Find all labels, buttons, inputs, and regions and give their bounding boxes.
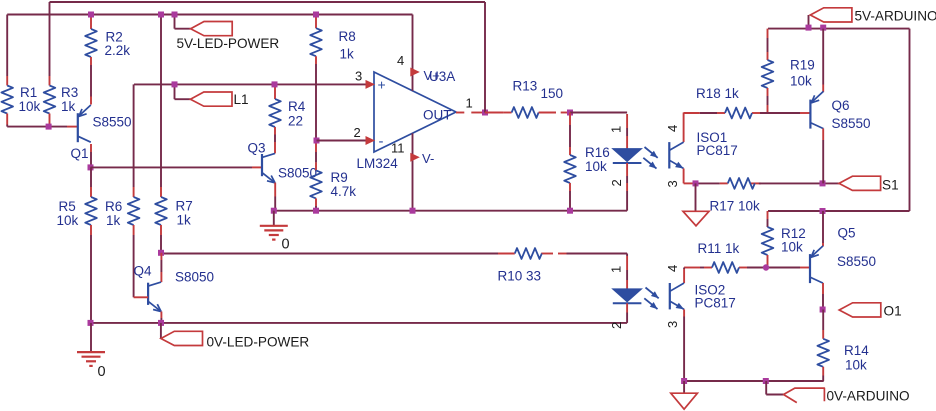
power flag 0V-LED-POWER bbox=[160, 323, 162, 339]
wire R3 top drop bbox=[49, 2, 51, 76]
wire ISO2 pin4 corner bbox=[683, 268, 685, 270]
svg-text:2: 2 bbox=[609, 179, 624, 186]
svg-text:Q6: Q6 bbox=[832, 98, 850, 113]
transistor Q1 S8550 bbox=[90, 97, 92, 105]
wire Q1 collector to Q3 base bbox=[91, 166, 253, 168]
node R8 top bbox=[313, 12, 319, 18]
wire 0V-LED-POWER bus bbox=[91, 322, 628, 324]
wire Q4 base bbox=[134, 296, 149, 298]
svg-text:R17 10k: R17 10k bbox=[710, 199, 761, 214]
svg-text:+: + bbox=[378, 77, 386, 93]
wire R1 top drop bbox=[6, 15, 8, 77]
node R3-base junction bbox=[46, 124, 52, 130]
pin 4 arrow bbox=[410, 68, 420, 77]
svg-text:0V-LED-POWER: 0V-LED-POWER bbox=[207, 334, 310, 349]
svg-text:R14: R14 bbox=[844, 343, 869, 358]
svg-text:10k: 10k bbox=[57, 213, 79, 228]
svg-text:0: 0 bbox=[282, 237, 290, 253]
svg-text:11: 11 bbox=[391, 141, 405, 156]
power flag 5V-ARDUINO bbox=[808, 15, 810, 29]
resistor R18 1k bbox=[725, 108, 752, 119]
ground 0 mid bbox=[260, 225, 288, 227]
wire ISO1 emitter to S1 bbox=[684, 182, 696, 184]
pin 3 arrow bbox=[366, 80, 376, 89]
svg-text:1: 1 bbox=[609, 126, 624, 133]
ISO2 light arrows bbox=[646, 288, 659, 299]
resistor R14 bbox=[822, 310, 824, 331]
node 5V-ARDUINO stub bbox=[806, 25, 812, 31]
svg-text:R6: R6 bbox=[105, 199, 122, 214]
svg-text:R18 1k: R18 1k bbox=[696, 86, 739, 101]
node R4 top bbox=[272, 81, 278, 87]
node R12 bottom junction bbox=[763, 264, 769, 270]
svg-text:4.7k: 4.7k bbox=[331, 184, 357, 199]
resistor R3 bbox=[49, 76, 51, 86]
svg-text:1k: 1k bbox=[340, 47, 355, 62]
svg-text:S8550: S8550 bbox=[832, 116, 871, 131]
ISO2 LED pins bbox=[626, 256, 628, 270]
node R16 top bbox=[567, 110, 573, 116]
svg-text:10k: 10k bbox=[845, 358, 867, 373]
svg-text:R10 33: R10 33 bbox=[498, 269, 542, 284]
svg-text:R16: R16 bbox=[585, 145, 610, 160]
flag S1 bbox=[839, 176, 881, 190]
ISO2 LED bbox=[613, 289, 642, 302]
svg-text:1: 1 bbox=[466, 96, 473, 111]
transistor Q4 S8050 bbox=[160, 253, 162, 260]
svg-text:Q1: Q1 bbox=[71, 146, 89, 161]
node R2 top bbox=[88, 12, 94, 18]
svg-text:S8550: S8550 bbox=[837, 254, 876, 269]
node Q3 emitter ground junction bbox=[271, 208, 277, 214]
wire ISO2 ground stem bbox=[683, 381, 685, 393]
svg-text:R4: R4 bbox=[288, 99, 306, 114]
wire R11/Q5 base net bbox=[684, 267, 700, 269]
transistor Q3 S8050 bbox=[261, 154, 263, 176]
node 5V flag stub bbox=[172, 12, 178, 18]
pin 2 arrow bbox=[366, 136, 376, 145]
resistor R17 10k bbox=[728, 178, 755, 189]
svg-text:R9: R9 bbox=[331, 170, 348, 185]
wire 5V-LED-POWER rail bbox=[7, 14, 412, 16]
svg-text:R3: R3 bbox=[61, 85, 78, 100]
wire 5V-ARDUINO rail bbox=[768, 28, 910, 30]
resistor R4 bbox=[274, 84, 276, 99]
op-amp V+ pin 4 wire bbox=[412, 15, 414, 91]
svg-text:1k: 1k bbox=[177, 213, 192, 228]
svg-text:10k: 10k bbox=[781, 240, 803, 255]
svg-text:Q5: Q5 bbox=[838, 226, 856, 241]
ground ISO2 bbox=[671, 393, 698, 409]
wire Q1 base net bbox=[7, 126, 67, 128]
svg-text:R1: R1 bbox=[20, 85, 37, 100]
svg-text:0V-ARDUINO: 0V-ARDUINO bbox=[827, 389, 910, 404]
op-amp U3A LM324 bbox=[374, 72, 456, 152]
svg-text:3: 3 bbox=[665, 321, 680, 328]
svg-text:3: 3 bbox=[355, 69, 362, 84]
svg-text:4: 4 bbox=[665, 265, 680, 272]
node V- bottom bbox=[410, 208, 416, 214]
wire R7/Q4 collector to R10 net bbox=[161, 253, 498, 255]
svg-text:5V-LED-POWER: 5V-LED-POWER bbox=[177, 36, 280, 51]
svg-text:LM324: LM324 bbox=[357, 156, 399, 171]
ISO2 phototransistor bbox=[683, 269, 685, 283]
svg-text:10k: 10k bbox=[19, 99, 41, 114]
svg-text:R7: R7 bbox=[176, 199, 193, 214]
wire ground stub ISO1 bbox=[695, 183, 697, 211]
svg-text:S8050: S8050 bbox=[175, 270, 214, 285]
svg-text:L1: L1 bbox=[234, 92, 249, 107]
transistor Q5 S8550 bbox=[822, 211, 824, 243]
svg-text:2: 2 bbox=[609, 322, 624, 329]
node Q5 emitter rail junction bbox=[820, 208, 826, 214]
svg-text:2: 2 bbox=[354, 125, 361, 140]
ISO1 LED bbox=[613, 149, 642, 162]
svg-text:V-: V- bbox=[422, 151, 434, 166]
svg-text:Q3: Q3 bbox=[248, 141, 266, 156]
node R7 rail top bbox=[158, 12, 164, 18]
resistor R10 33 bbox=[515, 248, 542, 259]
svg-text:O1: O1 bbox=[884, 304, 902, 319]
svg-text:1: 1 bbox=[609, 266, 624, 273]
resistor R19 bbox=[767, 29, 769, 38]
ground 0 left bbox=[77, 351, 105, 353]
svg-text:4: 4 bbox=[665, 125, 680, 132]
wire top feedback rail (R3 top to op-amp output node) bbox=[50, 1, 486, 3]
svg-text:4: 4 bbox=[397, 53, 404, 68]
wire op-amp ground bus bbox=[274, 210, 627, 212]
node ISO2 ground junction bbox=[681, 378, 687, 384]
power flag L1 bbox=[174, 84, 176, 99]
flag O1 bbox=[839, 303, 881, 317]
svg-text:V+: V+ bbox=[424, 68, 440, 83]
svg-text:R5: R5 bbox=[59, 199, 76, 214]
node O1 junction bbox=[820, 307, 826, 313]
svg-text:3: 3 bbox=[665, 180, 680, 187]
svg-text:PC817: PC817 bbox=[695, 296, 736, 311]
wire 5V-ARDUINO right rail bbox=[909, 29, 911, 211]
svg-text:S1: S1 bbox=[882, 178, 899, 193]
svg-text:-: - bbox=[379, 133, 384, 150]
svg-text:1k: 1k bbox=[106, 213, 121, 228]
node Q1 collector junction bbox=[88, 164, 94, 170]
svg-text:10k: 10k bbox=[585, 159, 607, 174]
svg-text:R8: R8 bbox=[339, 29, 356, 44]
wire -input net bbox=[317, 140, 367, 142]
pin 11 arrow bbox=[410, 153, 420, 162]
wire Q3 ground stem bbox=[273, 211, 275, 226]
svg-text:Q4: Q4 bbox=[134, 264, 153, 279]
resistor R1 bbox=[6, 76, 8, 86]
svg-text:150: 150 bbox=[541, 86, 564, 101]
svg-text:5V-ARDUINO: 5V-ARDUINO bbox=[855, 9, 936, 24]
resistor R11 1k bbox=[712, 262, 739, 273]
svg-text:R13: R13 bbox=[513, 79, 538, 94]
node inverting input junction bbox=[314, 138, 320, 144]
node Q6 emitter top bbox=[820, 25, 826, 31]
resistor R12 bbox=[767, 211, 769, 219]
svg-text:2.2k: 2.2k bbox=[105, 43, 131, 58]
power flag 5V-LED-POWER bbox=[174, 15, 176, 29]
ISO1 LED pins bbox=[626, 114, 628, 128]
ISO1 light arrows bbox=[645, 147, 658, 158]
resistor R7 bbox=[160, 15, 162, 188]
resistor R5 bbox=[90, 167, 92, 187]
svg-text:R11 1k: R11 1k bbox=[698, 241, 740, 256]
power flag 0V-ARDUINO bbox=[765, 381, 767, 395]
wire Q5 emitter rail bbox=[768, 210, 910, 212]
node L1 stub bbox=[172, 81, 178, 87]
node S1 junction bbox=[820, 180, 826, 186]
wire output feedback riser bbox=[484, 2, 486, 113]
node R7 bottom junction bbox=[158, 250, 164, 256]
svg-text:PC817: PC817 bbox=[697, 143, 738, 158]
svg-text:10k: 10k bbox=[790, 74, 812, 89]
node output feedback junction bbox=[482, 110, 488, 116]
node R9 bottom bbox=[313, 208, 319, 214]
svg-text:1k: 1k bbox=[61, 99, 76, 114]
svg-text:22: 22 bbox=[288, 114, 303, 129]
svg-text:R19: R19 bbox=[790, 58, 815, 73]
wire op-amp output bbox=[456, 112, 464, 114]
wire to ISO1 LED anode bbox=[570, 112, 627, 114]
ground ISO1 bbox=[683, 211, 709, 226]
wire +input / L1 net bbox=[134, 83, 366, 85]
node ISO1 pin3 ground tap bbox=[693, 180, 699, 186]
transistor Q6 S8550 bbox=[822, 29, 824, 85]
resistor R9 bbox=[315, 141, 317, 153]
svg-text:0: 0 bbox=[98, 364, 106, 380]
wire R18/Q6 base net bbox=[684, 112, 700, 114]
resistor R8 bbox=[315, 15, 317, 29]
node R16 bottom bbox=[567, 208, 573, 214]
resistor R13 150 bbox=[485, 112, 504, 114]
node R5 ground junction bbox=[88, 320, 94, 326]
op-amp V- pin 11 wire bbox=[412, 133, 414, 210]
wire R5 ground stem bbox=[90, 323, 92, 352]
node 0V-ARDUINO stub junction bbox=[763, 378, 769, 384]
ISO1 phototransistor bbox=[683, 113, 685, 143]
resistor R6 bbox=[133, 84, 135, 187]
svg-text:S8550: S8550 bbox=[93, 115, 132, 130]
svg-text:OUT: OUT bbox=[423, 108, 452, 123]
node Q4 emitter junction bbox=[158, 320, 164, 326]
wire 0V-ARDUINO bus bbox=[684, 380, 824, 382]
resistor R2 bbox=[90, 15, 92, 30]
resistor R16 bbox=[569, 113, 571, 126]
